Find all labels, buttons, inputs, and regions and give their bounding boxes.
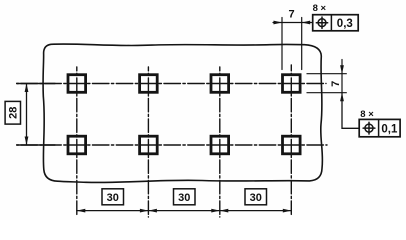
centerline column 4 (vertical dash-dot) [290,65,292,217]
dimension 30 (bottom chain): dimension line [77,210,291,212]
dimension 7 (top): left arrow with tail [273,22,302,24]
svg-text:28: 28 [8,107,20,119]
tolerance frame 1: outer box [313,15,359,31]
dim 30 box 3 [245,189,267,205]
centerline column 2 (vertical dash-dot) [147,67,149,217]
dimension 7 (top): right extension line [301,18,303,70]
tolerance frame 2: outer box [359,119,400,136]
dimension 7 (top, hole width): left extension line [281,18,283,70]
dimension 7 (top): right arrow with leader to frame [302,22,313,24]
dimension 28: dimension line [26,85,28,145]
tolerance frame 1: divider [330,15,332,31]
dimension 7 (right): bottom extension line [307,92,346,94]
svg-text:0,1: 0,1 [381,123,398,135]
dimension 28: arrow down [25,137,29,146]
centerline column 1 (vertical dash-dot) [76,67,78,217]
square hole row2 col4 [283,136,301,154]
square hole row1 col1 [68,75,86,93]
square hole row2 col2 [140,136,158,154]
dim 30 arrow at col1 [77,209,86,213]
dim 30 arrows at col3 [211,209,228,213]
square hole row1 col2 [140,75,158,93]
dimension 28: frame box [5,101,20,124]
square hole row1 col4 [283,75,301,93]
centerline row 1 solid lead-in [17,83,55,85]
centerline column 3 (vertical dash-dot) [219,67,221,217]
dim 30 arrows at col2 [140,209,157,213]
svg-text:8 ×: 8 × [313,3,327,14]
svg-text:8 ×: 8 × [360,109,374,120]
square hole row2 col3 [211,136,229,154]
dim 30 arrow at col4 [283,209,292,213]
plate outline (break-line style wavy rounded rectangle) [43,44,322,183]
tolerance frame 2: divider [378,119,380,136]
svg-text:7: 7 [330,81,342,87]
dim 30 box 1 [102,189,124,205]
square hole row2 col1 [68,136,86,154]
square hole row1 col3 [211,75,229,93]
dimension 7 (right, hole height): top extension line [307,73,346,75]
svg-text:30: 30 [250,192,262,204]
tolerance frame 1: position symbol [318,19,326,27]
svg-text:30: 30 [107,192,119,204]
dim 30 box 2 [174,189,196,205]
svg-text:30: 30 [178,192,190,204]
tolerance frame 2: position symbol [365,124,373,132]
dimension 7 (right): bottom arrow and leader to frame 2 [342,93,359,129]
centerline row 2 solid lead-in [17,144,55,146]
centerline row 2 (horizontal dash-dot) [17,144,327,146]
svg-text:0,3: 0,3 [337,18,353,30]
svg-text:7: 7 [288,9,294,21]
dimension 7 (right): top arrow [341,60,343,93]
centerline row 1 (horizontal dash-dot) [17,83,326,85]
dimension 28: arrow up [25,84,29,93]
